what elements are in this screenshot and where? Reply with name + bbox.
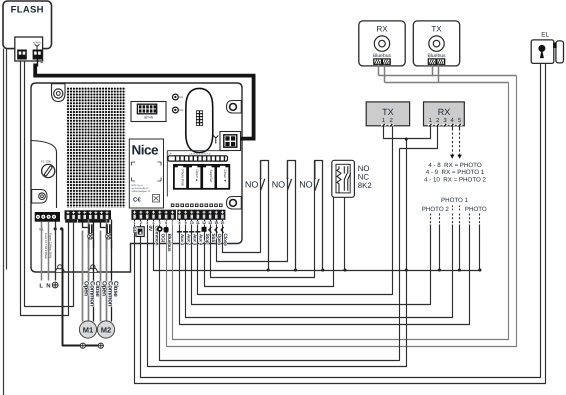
- svg-text:AERIAL: AERIAL: [33, 42, 42, 45]
- svg-text:NO: NO: [299, 180, 313, 190]
- svg-text:Aux 3: Aux 3: [192, 234, 197, 246]
- svg-text:12: 12: [202, 221, 206, 225]
- svg-text:11: 11: [196, 221, 200, 225]
- svg-text:13: 13: [208, 221, 212, 225]
- svg-text:4: 4: [153, 221, 155, 225]
- svg-text:EL: EL: [131, 227, 137, 233]
- svg-text:M3: M3: [179, 109, 183, 112]
- svg-text:4 - 9 RX = PHOTO 1: 4 - 9 RX = PHOTO 1: [426, 169, 485, 176]
- svg-text:9: 9: [185, 221, 187, 225]
- svg-text:NICE S.p.A.: NICE S.p.A.: [132, 184, 144, 187]
- svg-text:Aux 4: Aux 4: [199, 234, 204, 246]
- svg-text:RX: RX: [438, 107, 451, 117]
- svg-text:NO: NO: [245, 180, 259, 190]
- svg-text:4 - 10 RX = PHOTO 2: 4 - 10 RX = PHOTO 2: [424, 176, 487, 183]
- svg-text:14: 14: [214, 221, 218, 225]
- svg-text:Close: Close: [112, 281, 119, 297]
- svg-text:Close ▼: Close ▼: [223, 170, 227, 183]
- svg-text:L1L2L3L4L5L6L7L8: L1L2L3L4L5L6L7L8: [189, 153, 211, 156]
- svg-text:L: L: [39, 282, 43, 289]
- svg-text:6: 6: [165, 221, 167, 225]
- svg-text:M1: M1: [84, 220, 88, 223]
- svg-text:PHOTO 1: PHOTO 1: [441, 197, 469, 204]
- svg-text:8: 8: [179, 221, 181, 225]
- svg-text:OGI: OGI: [160, 234, 166, 243]
- svg-text:LP: LP: [169, 153, 172, 156]
- svg-text:Stop/Set: Stop/Set: [209, 170, 213, 183]
- svg-text:FLASH: FLASH: [11, 5, 44, 16]
- svg-text:31046 Rustigne TV: 31046 Rustigne TV: [132, 190, 151, 193]
- svg-text:15: 15: [220, 221, 224, 225]
- svg-text:M3: M3: [179, 96, 183, 99]
- svg-text:Aux 1: Aux 1: [180, 234, 185, 246]
- svg-text:Photo P/56: Photo P/56: [181, 170, 185, 186]
- svg-text:M1: M1: [83, 326, 93, 335]
- svg-text:0V: 0V: [147, 226, 153, 233]
- svg-text:IBT4N: IBT4N: [144, 116, 154, 120]
- svg-text:M2: M2: [101, 326, 111, 335]
- svg-text:10: 10: [190, 221, 194, 225]
- svg-text:8K2: 8K2: [358, 181, 372, 190]
- svg-text:TX: TX: [431, 25, 442, 34]
- svg-text:7: 7: [171, 221, 173, 225]
- svg-text:5: 5: [159, 221, 161, 225]
- svg-text:2: 2: [140, 221, 142, 225]
- svg-text:Aux 2: Aux 2: [186, 234, 191, 246]
- svg-text:Close: Close: [94, 281, 101, 297]
- svg-text:Close: Close: [222, 234, 228, 247]
- svg-text:F1 T2A: F1 T2A: [41, 160, 51, 164]
- svg-text:SbS: SbS: [210, 234, 216, 244]
- svg-text:via Pezza Alta 13: via Pezza Alta 13: [132, 187, 150, 190]
- svg-text:PHOTO 2: PHOTO 2: [422, 206, 450, 213]
- svg-text:Open: Open: [216, 234, 222, 246]
- svg-text:Nice: Nice: [132, 143, 160, 158]
- svg-text:RX: RX: [376, 25, 388, 34]
- svg-text:Stop: Stop: [204, 234, 210, 244]
- svg-text:1: 1: [134, 221, 136, 225]
- svg-text:N: N: [46, 282, 50, 289]
- svg-text:Bluebus: Bluebus: [166, 234, 172, 252]
- svg-text:Open ▲: Open ▲: [195, 170, 199, 182]
- svg-text:PHOTO: PHOTO: [465, 206, 487, 213]
- svg-text:EL: EL: [541, 32, 549, 39]
- svg-text:NO: NO: [272, 180, 286, 190]
- svg-text:TX: TX: [382, 107, 394, 117]
- svg-text:Fuse F1 T2A 230Vac: Fuse F1 T2A 230Vac: [44, 233, 48, 260]
- svg-text:4 - 8 RX = PHOTO: 4 - 8 RX = PHOTO: [428, 162, 482, 169]
- svg-text:3: 3: [146, 221, 148, 225]
- svg-text:C€: C€: [133, 197, 141, 204]
